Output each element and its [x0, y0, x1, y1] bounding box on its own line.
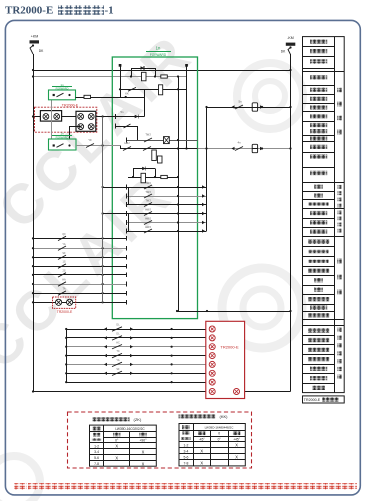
table KK grid	[179, 424, 245, 466]
note text	[14, 483, 357, 489]
wire close row c	[198, 147, 292, 149]
table ZK title	[93, 417, 142, 422]
switch DK left	[30, 44, 44, 54]
input row 3	[32, 252, 127, 260]
table KK content	[181, 425, 240, 466]
svg-text:DL: DL	[116, 324, 120, 327]
svg-text:KK: KK	[125, 92, 129, 96]
wire close row b	[120, 147, 198, 149]
svg-text:X: X	[235, 455, 238, 460]
signal table power row	[304, 397, 339, 402]
plug box 1	[49, 90, 76, 100]
contact TWJ0	[144, 133, 152, 143]
svg-text:TA: TA	[62, 288, 65, 291]
module 1n outline	[112, 57, 197, 319]
svg-text:-KM: -KM	[287, 36, 294, 40]
signal table grid	[303, 37, 345, 393]
aux contact row 4	[65, 350, 209, 358]
input row 1	[32, 233, 127, 241]
title TR2000-E	[5, 5, 114, 17]
contact ct2	[124, 124, 131, 128]
svg-text:HWJ: HWJ	[145, 216, 151, 220]
position contact row HWJ5	[126, 216, 206, 225]
wire ct link	[62, 116, 76, 118]
switch DK right	[281, 46, 292, 54]
svg-text:TWJ: TWJ	[145, 190, 151, 194]
input row 6	[32, 279, 127, 287]
diode D1	[141, 66, 145, 70]
svg-text:0°: 0°	[115, 439, 119, 443]
wire power return	[240, 391, 291, 393]
svg-text:7-8: 7-8	[184, 461, 189, 465]
device terminal 6	[209, 370, 215, 376]
svg-text:3-4: 3-4	[94, 450, 99, 454]
diode D2	[135, 115, 139, 119]
input row 8	[32, 300, 127, 305]
svg-text:5n: 5n	[238, 100, 242, 104]
relay coil HBJ3	[141, 173, 146, 183]
label 1n	[146, 46, 171, 58]
device terminal 7	[209, 379, 215, 385]
wire top bus	[32, 69, 292, 71]
table ZK content	[92, 426, 147, 466]
wire right bus	[290, 54, 292, 392]
svg-text:1-2: 1-2	[94, 444, 99, 448]
svg-text:X: X	[200, 461, 203, 466]
svg-text:FORWARD: FORWARD	[56, 88, 69, 91]
wire bottom rail	[32, 390, 209, 392]
svg-text:FORWARD: FORWARD	[150, 53, 167, 57]
ct terminal B4	[88, 124, 94, 130]
svg-text:+KM: +KM	[31, 35, 39, 39]
relay coil HBJ2	[152, 150, 157, 161]
svg-text:FORWARD: FORWARD	[56, 137, 69, 140]
bracket pos b	[128, 214, 130, 232]
resistor R3	[161, 175, 168, 178]
device terminal 4	[209, 353, 215, 359]
svg-text:0: 0	[218, 432, 220, 436]
terminal block A	[40, 111, 61, 122]
wire plug right	[186, 65, 188, 148]
svg-text:DK: DK	[281, 50, 286, 54]
svg-text:DK: DK	[39, 49, 44, 53]
svg-text:5-6: 5-6	[184, 455, 189, 459]
arrow close left	[232, 147, 235, 150]
wire branch	[144, 89, 146, 116]
contact TJ	[235, 100, 243, 110]
svg-text:7-8: 7-8	[94, 462, 99, 466]
label plug2	[52, 132, 72, 140]
svg-text:TC: TC	[116, 350, 120, 353]
svg-text:X: X	[115, 444, 118, 449]
signal table last row	[303, 396, 345, 403]
device terminal 3	[209, 344, 215, 350]
svg-text:QF: QF	[62, 233, 66, 236]
svg-text:+45°: +45°	[233, 437, 240, 441]
wire plug1 out	[76, 96, 145, 98]
resistor R2	[84, 95, 91, 98]
ct box small dashed	[53, 297, 76, 308]
svg-text:0°: 0°	[218, 437, 222, 441]
wire loop2 base	[128, 176, 179, 178]
node terminal b	[185, 64, 188, 67]
node terminal a	[119, 64, 122, 67]
svg-text:4n: 4n	[237, 141, 241, 145]
svg-text:TR2000-E: TR2000-E	[304, 398, 321, 402]
aux contact row 2	[65, 333, 209, 341]
wire loop1 top	[130, 68, 156, 78]
contact HBJ1	[123, 141, 131, 151]
plug1 contact	[53, 93, 71, 97]
svg-text:X: X	[142, 450, 145, 455]
svg-text:X: X	[142, 462, 145, 467]
position contact row HWJ6	[126, 225, 206, 234]
device terminal 1	[209, 326, 215, 332]
svg-text:X: X	[115, 456, 118, 461]
svg-text:(KK): (KK)	[220, 414, 229, 419]
svg-text:HC: HC	[116, 341, 120, 344]
ct box TR2000-E dashed	[35, 107, 97, 132]
svg-text:5-6: 5-6	[94, 456, 99, 460]
svg-text:DL: DL	[116, 333, 120, 336]
relay coil HBJ	[159, 85, 163, 95]
input row 5	[32, 270, 127, 278]
device terminal 5	[209, 361, 215, 367]
terminal +KM	[30, 35, 40, 44]
lamp HW	[164, 137, 170, 144]
ct terminal A1	[43, 114, 49, 120]
contact YF	[86, 138, 94, 148]
bracket pos a	[128, 187, 130, 205]
aux contact row 1	[65, 324, 209, 332]
svg-text:LW39D-16480448/2C: LW39D-16480448/2C	[205, 426, 235, 430]
svg-text:TR2000-E: TR2000-E	[62, 103, 79, 107]
svg-text:1-2: 1-2	[184, 443, 189, 447]
device box TR2000-E	[206, 321, 245, 398]
svg-text:1n: 1n	[60, 132, 64, 136]
position contact row HWJ4	[102, 207, 207, 216]
relay aux box	[158, 156, 163, 163]
svg-text:2S: 2S	[62, 270, 65, 273]
svg-text:1n: 1n	[156, 46, 161, 51]
aux contact row 7	[65, 381, 209, 383]
wire common vert	[102, 117, 104, 303]
wire plug link	[51, 100, 53, 139]
svg-text:-45°: -45°	[199, 437, 206, 441]
wire close row a	[76, 144, 120, 146]
wire neg link	[176, 310, 292, 312]
wire ct left stub	[69, 127, 81, 140]
input row 4	[32, 261, 127, 269]
label TR2000-E device	[220, 345, 239, 350]
wire row KK	[119, 88, 187, 90]
label TR2000-E ct	[62, 103, 79, 107]
svg-text:HA: HA	[62, 279, 66, 282]
ct terminal S1	[56, 299, 62, 305]
svg-text:TWJ: TWJ	[145, 181, 151, 185]
aux contact row 6	[65, 368, 209, 376]
terminal -KM	[286, 36, 296, 46]
wire loop2	[133, 169, 156, 178]
position contact row TWJ2	[126, 190, 206, 199]
svg-text:HWJ: HWJ	[145, 207, 151, 211]
diode D4	[142, 167, 146, 171]
svg-text:TR2000-E: TR2000-E	[57, 310, 73, 314]
bottom dashed box	[68, 412, 252, 468]
svg-text:YA: YA	[116, 359, 119, 362]
wire close jog	[120, 146, 122, 149]
svg-text:TWJ: TWJ	[145, 133, 151, 137]
device terminal 2	[209, 335, 215, 341]
aux contact row 3	[65, 341, 209, 349]
decor	[0, 21, 303, 501]
svg-text:1S: 1S	[62, 261, 65, 264]
wire ct out	[96, 110, 145, 119]
contact HBJ2	[143, 147, 151, 151]
svg-text:3-4: 3-4	[184, 449, 189, 453]
arrow close right	[260, 147, 263, 150]
svg-text:X: X	[235, 443, 238, 448]
label TR2000-E small	[57, 310, 73, 314]
table KK title	[179, 414, 229, 419]
position contact row TWJ1	[102, 181, 207, 190]
svg-text:LW39D-16C0202/2C: LW39D-16C0202/2C	[115, 427, 145, 431]
svg-text:TR2000-E: TR2000-E	[5, 5, 53, 17]
resistor R1	[161, 75, 168, 78]
svg-text:TR2000-E: TR2000-E	[220, 345, 239, 350]
wire bottom common	[66, 329, 68, 382]
ct terminal B2	[88, 114, 94, 120]
wire trip row	[207, 106, 292, 108]
svg-text:-1: -1	[105, 5, 114, 17]
ct terminal A2	[54, 114, 60, 120]
ct terminal S2	[67, 299, 73, 305]
wire grey bus	[32, 75, 187, 77]
contactor TBJ box	[252, 103, 257, 111]
svg-text:SF: SF	[116, 368, 120, 371]
arrow trip left	[232, 105, 235, 108]
wire ct feed	[32, 115, 41, 117]
wire ct drop	[137, 126, 139, 140]
wire plug left	[120, 65, 122, 97]
relay coil TBJ	[142, 72, 180, 81]
aux contact row 5	[65, 359, 209, 367]
wire common rail	[178, 77, 180, 312]
svg-text:X: X	[200, 449, 203, 454]
device terminal 8	[209, 389, 215, 395]
table ZK grid	[90, 425, 157, 466]
terminal block B	[76, 111, 96, 131]
ct terminal B3	[78, 124, 84, 130]
ct terminal B1	[78, 114, 84, 120]
wire left bus	[33, 54, 35, 392]
svg-text:SF: SF	[62, 252, 66, 255]
svg-text:+90°: +90°	[139, 439, 147, 443]
svg-text:TWJ: TWJ	[145, 198, 151, 202]
input row 7	[32, 288, 127, 296]
wire ct out2	[116, 124, 138, 129]
input row 2	[32, 243, 127, 251]
svg-text:HBJ: HBJ	[125, 141, 131, 145]
plug box 2	[49, 139, 77, 150]
position contact row TWJ3	[126, 198, 206, 207]
svg-text:YF: YF	[88, 138, 92, 142]
contactor HBJ box	[252, 144, 257, 152]
signal table groups	[337, 88, 342, 379]
signal table labels	[308, 39, 329, 390]
terminal lamp	[126, 138, 128, 143]
svg-text:HWJ: HWJ	[145, 225, 151, 229]
contact KK1	[125, 87, 136, 95]
svg-text:(ZK): (ZK)	[134, 417, 142, 422]
contact HJ	[235, 141, 243, 151]
arrow trip right	[260, 105, 263, 108]
label plug1	[52, 83, 72, 91]
plug2 contact	[53, 144, 71, 148]
wire trip return	[205, 106, 207, 231]
wire lamp row	[126, 139, 197, 141]
svg-text:YA: YA	[62, 243, 65, 246]
device terminal pwr	[234, 389, 240, 395]
